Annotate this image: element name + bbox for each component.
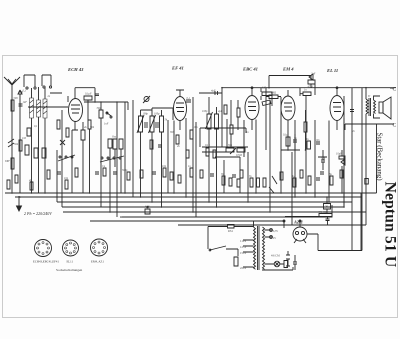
svg-text:8µ: 8µ	[329, 173, 332, 176]
svg-text:47pF: 47pF	[308, 86, 314, 89]
svg-text:0,1µ: 0,1µ	[283, 134, 288, 137]
svg-text:0,5M: 0,5M	[236, 154, 242, 157]
svg-text:R54: R54	[228, 230, 233, 233]
svg-text:2 Ph = 220/240V: 2 Ph = 220/240V	[24, 211, 52, 216]
svg-text:Star (Beckanang): Star (Beckanang)	[376, 132, 383, 180]
svg-text:EM4, AZ1: EM4, AZ1	[91, 260, 104, 265]
svg-text:6,3V: 6,3V	[273, 230, 278, 233]
svg-text:EF 41: EF 41	[171, 66, 184, 71]
svg-text:4V: 4V	[273, 237, 276, 240]
svg-text:1n: 1n	[304, 89, 307, 92]
svg-text:Sockelschaltungen: Sockelschaltungen	[56, 268, 82, 272]
svg-text:300: 300	[170, 131, 175, 134]
svg-text:Tr: Tr	[368, 95, 371, 98]
svg-text:30p: 30p	[97, 107, 102, 110]
svg-text:AZ 1: AZ 1	[293, 220, 303, 225]
svg-text:100p: 100p	[143, 113, 149, 116]
svg-text:1MΩ: 1MΩ	[271, 92, 277, 95]
svg-text:1nF: 1nF	[104, 123, 109, 126]
svg-text:50p: 50p	[228, 144, 233, 147]
svg-text:C: C	[393, 123, 397, 129]
svg-text:5k: 5k	[165, 119, 168, 122]
svg-text:50k: 50k	[90, 126, 95, 129]
svg-text:150V: 150V	[240, 251, 248, 255]
svg-text:0,1µ: 0,1µ	[205, 144, 210, 147]
svg-text:500p: 500p	[122, 169, 128, 172]
svg-text:4/6 CM: 4/6 CM	[271, 255, 280, 258]
svg-text:TRF: TRF	[5, 160, 10, 163]
svg-text:4µ: 4µ	[29, 179, 32, 182]
svg-text:ECH43,EBC41,EF41: ECH43,EBC41,EF41	[33, 260, 59, 265]
svg-text:470+560: 470+560	[318, 211, 328, 214]
svg-text:20: 20	[325, 205, 329, 209]
svg-text:110V: 110V	[240, 239, 247, 243]
svg-text:EBC 41: EBC 41	[242, 67, 258, 72]
svg-text:1nF: 1nF	[23, 101, 28, 104]
svg-text:4µF: 4µF	[218, 110, 223, 113]
svg-text:2n: 2n	[352, 130, 355, 133]
svg-text:500: 500	[14, 97, 19, 100]
svg-text:6µF: 6µF	[145, 206, 150, 209]
svg-text:50k: 50k	[14, 143, 19, 146]
svg-text:EM 4: EM 4	[282, 67, 294, 72]
svg-text:10n: 10n	[316, 139, 321, 142]
svg-text:0,1: 0,1	[23, 90, 27, 93]
svg-text:EL 11: EL 11	[326, 68, 338, 73]
svg-text:1n: 1n	[246, 131, 249, 134]
svg-text:2nF: 2nF	[311, 73, 316, 76]
svg-text:0,1: 0,1	[34, 125, 38, 128]
svg-text:10n: 10n	[64, 177, 69, 180]
svg-text:10n: 10n	[194, 126, 199, 129]
svg-text:1M: 1M	[22, 137, 26, 140]
svg-text:C: C	[393, 87, 397, 93]
svg-text:2k: 2k	[177, 145, 180, 148]
svg-text:6,8k: 6,8k	[262, 87, 267, 90]
svg-text:220V: 220V	[240, 266, 248, 270]
svg-text:125V: 125V	[240, 245, 248, 249]
svg-text:ECH 43: ECH 43	[67, 67, 84, 72]
svg-text:10µF: 10µF	[336, 153, 342, 156]
svg-text:Neptun 51 U: Neptun 51 U	[382, 182, 399, 268]
svg-text:EL11: EL11	[67, 260, 74, 264]
svg-text:2x: 2x	[48, 95, 51, 98]
svg-text:50µ: 50µ	[321, 157, 326, 160]
svg-text:4µF: 4µF	[211, 90, 216, 93]
svg-text:10n: 10n	[162, 165, 167, 168]
svg-text:1µ: 1µ	[292, 175, 295, 178]
svg-text:0,1µF: 0,1µF	[85, 93, 92, 96]
svg-text:100p: 100p	[154, 113, 160, 116]
svg-text:Osz: Osz	[112, 136, 117, 139]
svg-text:100p: 100p	[202, 110, 208, 113]
svg-text:4k: 4k	[84, 126, 87, 129]
